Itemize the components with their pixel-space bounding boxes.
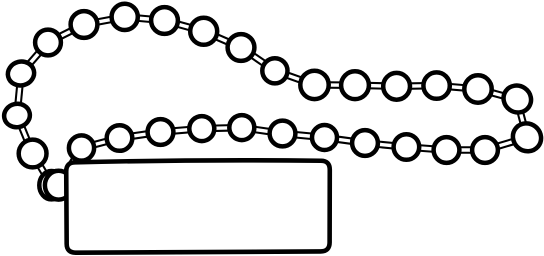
link 2-3 <box>17 116 33 154</box>
link 3-4 <box>17 74 21 116</box>
bead 12 <box>341 71 369 99</box>
bead 25 <box>189 116 214 141</box>
bead 23 <box>270 121 296 147</box>
link 26-27 <box>161 129 202 132</box>
link 21-22 <box>365 143 406 147</box>
link 10-11 <box>241 48 275 71</box>
bead 1 <box>19 140 47 168</box>
link 9-10 <box>204 31 241 47</box>
bead 5 <box>71 11 98 38</box>
bead 24 <box>229 115 254 140</box>
bead 26 <box>148 119 174 145</box>
bead 28 <box>69 135 94 160</box>
link 29-30 <box>59 148 82 185</box>
link 14-15 <box>397 82 437 90</box>
bead 17 <box>507 118 544 157</box>
bead 9 <box>228 34 255 61</box>
bead 21 <box>352 130 378 156</box>
link 13-14 <box>355 85 397 86</box>
link 8-9 <box>165 21 204 32</box>
link 1-2 <box>33 154 52 186</box>
link 22-23 <box>325 138 366 144</box>
link 19-20 <box>447 146 486 154</box>
link 11-12 <box>275 71 315 85</box>
link 28-29 <box>82 138 120 148</box>
link 27-28 <box>120 132 161 138</box>
bead 6 <box>112 4 138 30</box>
bead 16 <box>498 80 536 118</box>
bead 18 <box>472 137 498 163</box>
bead 8 <box>190 18 217 45</box>
link 15-16 <box>437 86 478 89</box>
link 16-17 <box>478 89 517 100</box>
link 20-21 <box>406 147 446 150</box>
link 6-7 <box>84 17 125 25</box>
bead 7 <box>151 7 178 34</box>
bead 15 <box>464 75 491 102</box>
link 18-19 <box>485 138 527 151</box>
bead 27 <box>107 125 133 151</box>
link 12-13 <box>315 81 356 89</box>
link 4-5 <box>21 43 48 74</box>
link 7-8 <box>125 17 165 21</box>
link 25-26 <box>202 128 242 129</box>
bead 13 <box>383 73 410 100</box>
bead 31 (right of pair behind tag) <box>45 171 72 200</box>
bead 4 <box>35 30 61 56</box>
bead 10 <box>262 58 287 83</box>
link 17-18 <box>517 100 527 138</box>
bead 14 <box>423 72 449 98</box>
bead 19 <box>434 137 460 163</box>
link 5-6 <box>48 25 84 43</box>
bead 2 <box>2 101 32 129</box>
link 24-25 <box>242 128 283 134</box>
bead 11 <box>300 71 328 99</box>
tag plate (blank rounded rectangle) <box>66 160 330 252</box>
bead 3 <box>5 59 36 88</box>
link 23-24 <box>283 134 325 138</box>
bead 30 (left of pair behind tag) <box>39 171 63 199</box>
bead 20 <box>394 134 420 160</box>
bead 22 <box>312 125 337 150</box>
